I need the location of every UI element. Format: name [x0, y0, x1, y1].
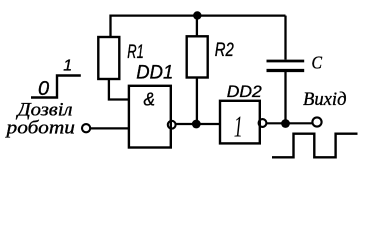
- svg-text:0: 0: [38, 78, 49, 100]
- node output of DD1 junction: [192, 120, 201, 129]
- wire capacitor top lead: [284, 16, 286, 60]
- svg-text:1: 1: [234, 109, 243, 144]
- wire top rail: [111, 16, 286, 37]
- output waveform pulses: [272, 134, 358, 158]
- resistor R1: [98, 37, 119, 79]
- DD1 output bubble: [168, 121, 176, 129]
- wire DD2 output to terminal: [267, 122, 313, 124]
- op element DD1 (NAND gate): [129, 86, 171, 148]
- svg-text:роботи: роботи: [4, 118, 75, 139]
- svg-text:&: &: [144, 90, 156, 110]
- wire DD1 output to DD2: [176, 123, 220, 125]
- svg-text:R1: R1: [127, 42, 144, 63]
- resistor R2: [187, 36, 208, 77]
- DD2 output bubble: [259, 119, 267, 127]
- svg-text:DD2: DD2: [227, 82, 263, 101]
- wire R2 to output node: [196, 78, 198, 124]
- node top junction: [193, 11, 201, 19]
- op element DD2 (inverter): [220, 101, 260, 144]
- wire R1 to DD1 input: [109, 79, 129, 100]
- svg-text:R2: R2: [215, 39, 234, 61]
- svg-text:Вихід: Вихід: [303, 89, 347, 110]
- wire R2 top stub: [196, 16, 198, 37]
- input terminal circle: [82, 124, 90, 132]
- wire input to DD1: [91, 127, 129, 129]
- output terminal circle: [312, 117, 321, 126]
- node output junction: [281, 119, 290, 128]
- input waveform 0 to 1 step: [31, 76, 81, 98]
- svg-text:C: C: [312, 53, 323, 73]
- wire capacitor bottom lead: [284, 72, 286, 124]
- capacitor C: [267, 61, 305, 71]
- svg-text:1: 1: [63, 57, 72, 74]
- svg-text:DD1: DD1: [136, 63, 173, 84]
